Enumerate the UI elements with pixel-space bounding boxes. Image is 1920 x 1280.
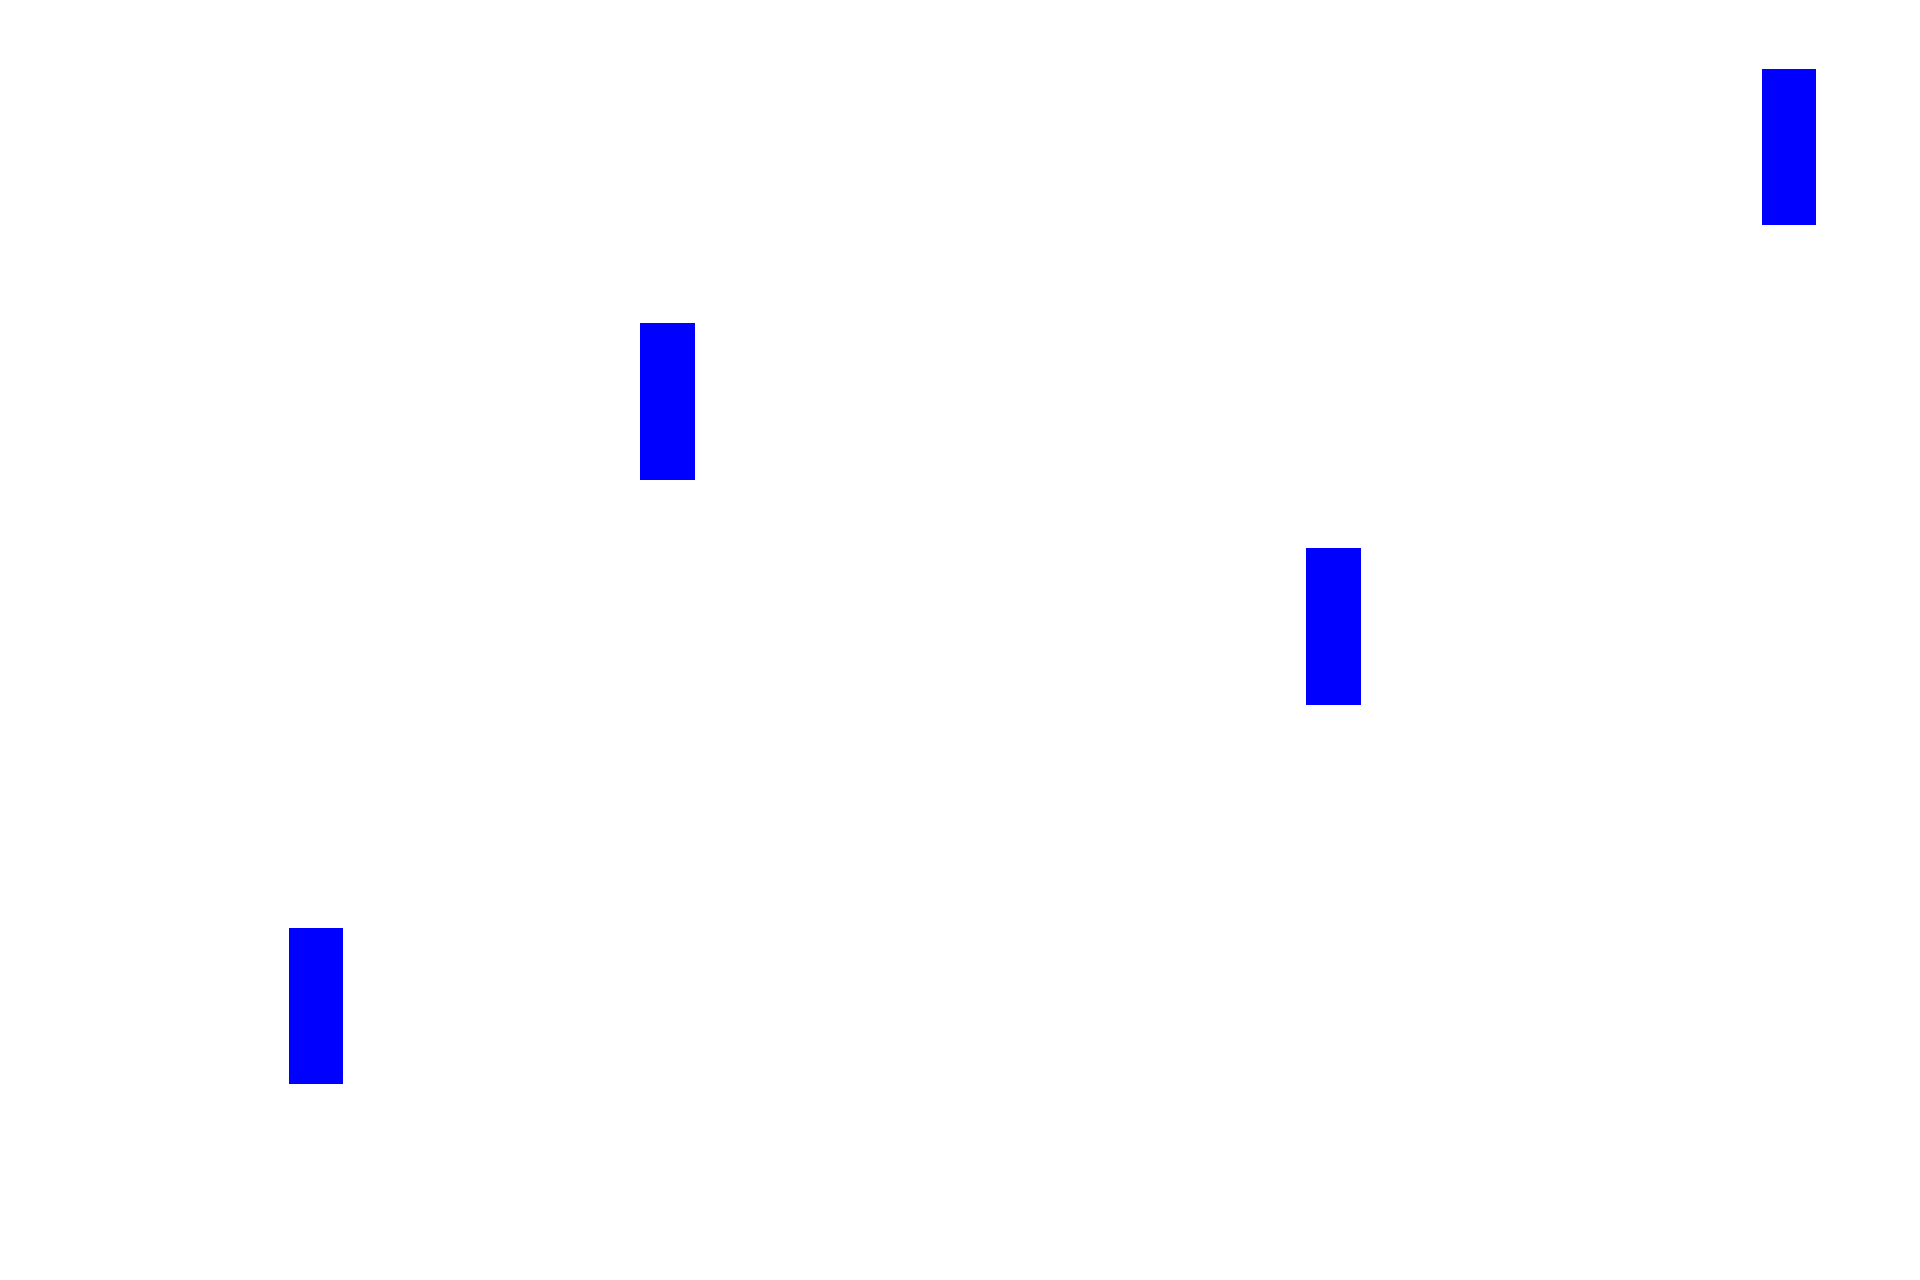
bar 1 (top right) <box>1762 69 1816 225</box>
bar 4 (bottom left) <box>289 928 343 1084</box>
bar 3 (middle right) <box>1306 548 1361 705</box>
bar 2 (upper middle-left) <box>640 323 695 480</box>
